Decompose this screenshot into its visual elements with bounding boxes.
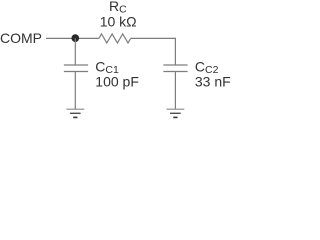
svg-text:10 kΩ: 10 kΩ — [100, 13, 137, 29]
resistor RC — [99, 34, 131, 43]
node junction dot — [71, 34, 79, 42]
capacitor CC2 — [163, 64, 187, 66]
capacitor CC1 — [64, 64, 88, 66]
wire COMP to junction and resistor — [46, 37, 99, 39]
svg-text:33 nF: 33 nF — [195, 73, 231, 89]
ground right — [167, 109, 185, 117]
wire junction down to CC1 — [74, 38, 76, 65]
wire right vertical down to CC2 — [174, 38, 176, 65]
wire CC1 to ground — [74, 72, 76, 110]
wire resistor to right corner — [131, 37, 176, 39]
ground left — [66, 109, 84, 117]
svg-text:COMP: COMP — [0, 30, 42, 46]
wire CC2 to ground — [174, 72, 176, 110]
svg-text:100 pF: 100 pF — [95, 73, 139, 89]
